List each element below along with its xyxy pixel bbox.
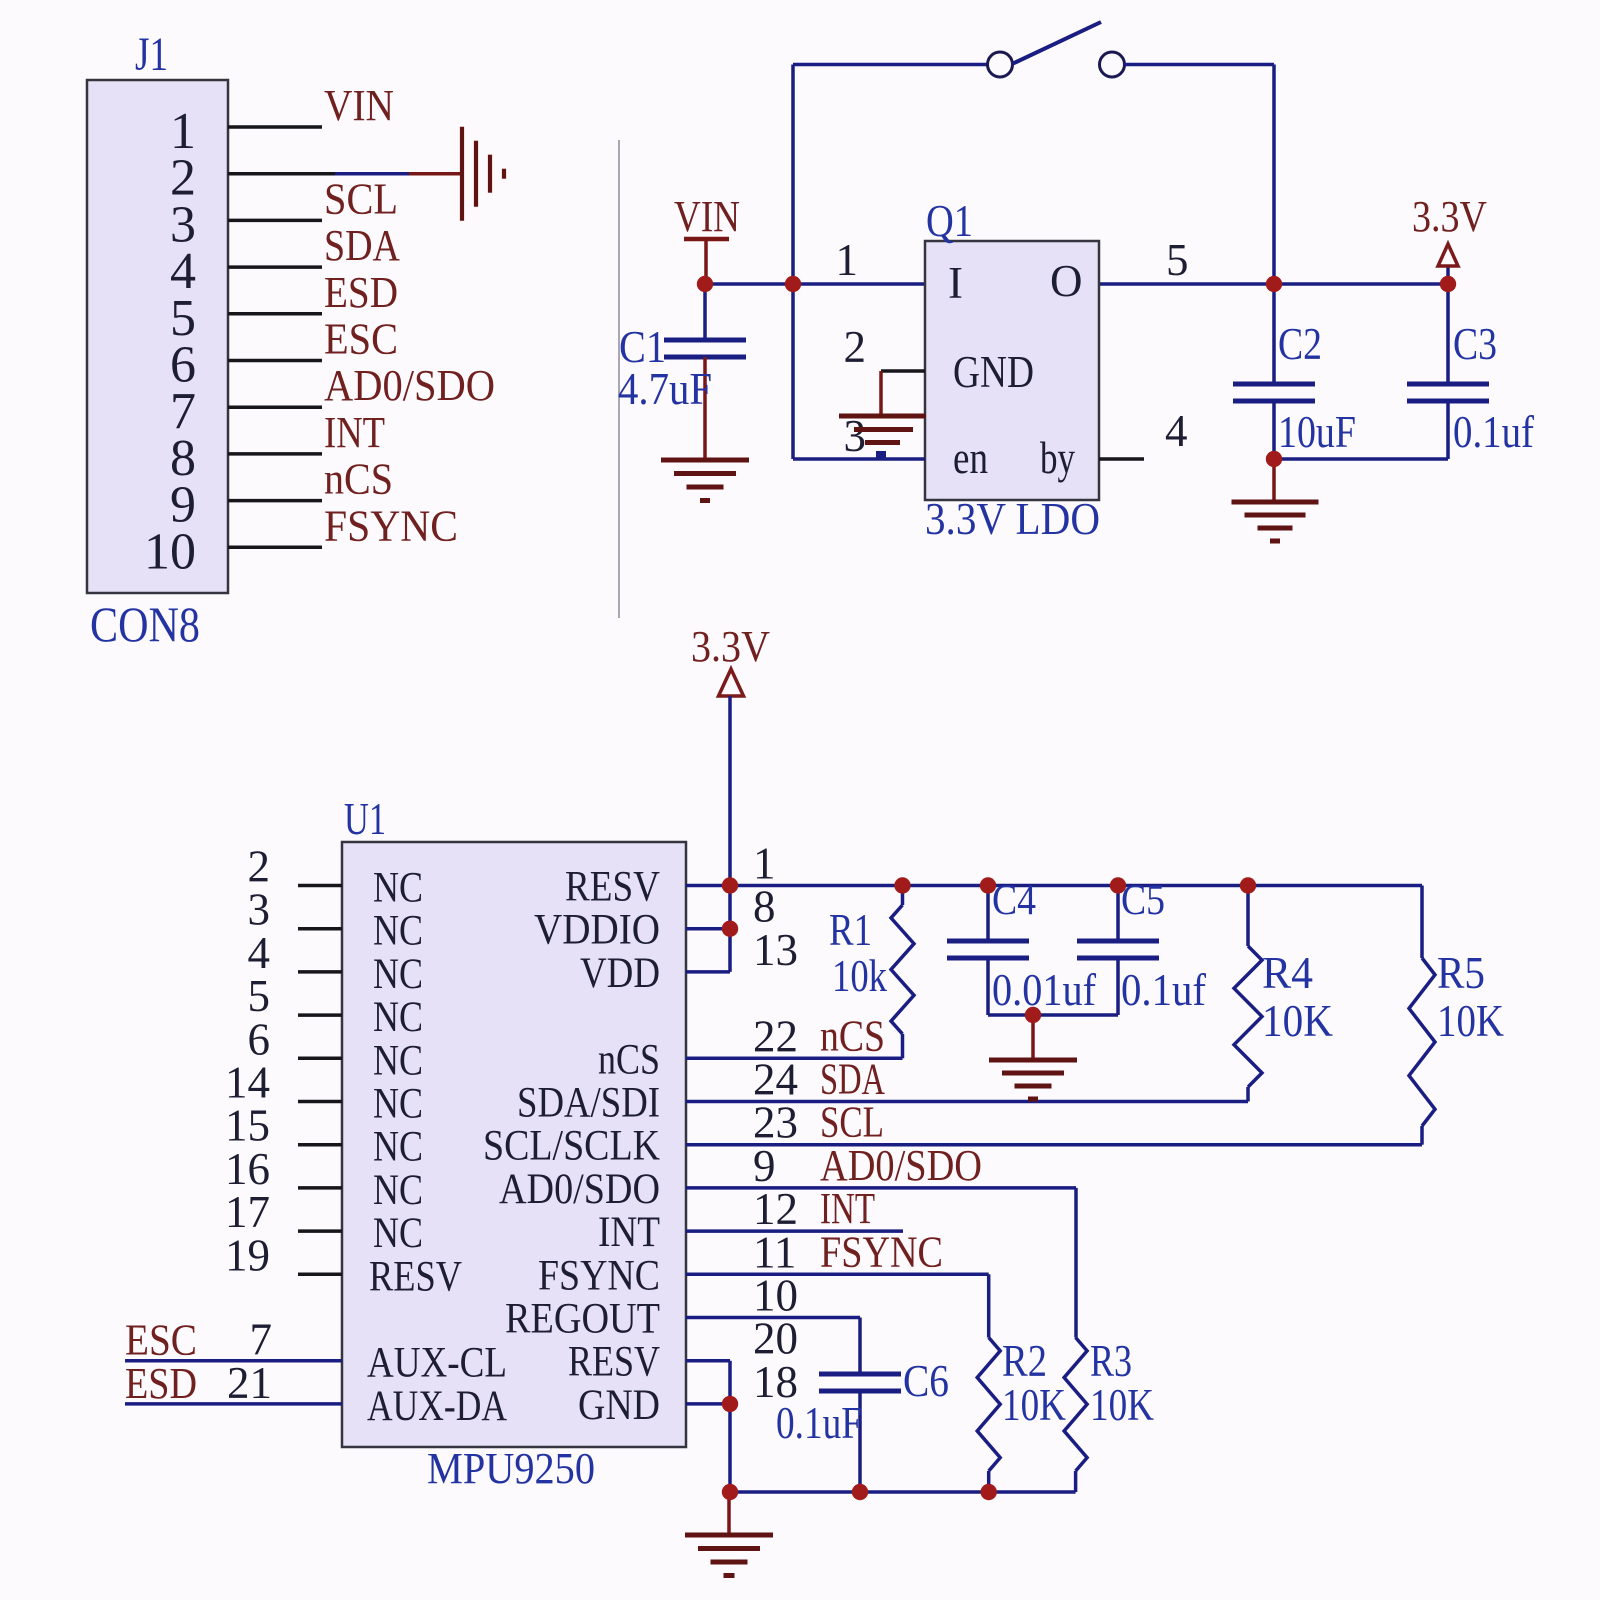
svg-text:AD0/SDO: AD0/SDO [820,1141,982,1190]
svg-text:RESV: RESV [369,1253,462,1300]
svg-text:3.3V LDO: 3.3V LDO [925,494,1100,544]
svg-text:R3: R3 [1090,1336,1132,1386]
svg-text:MPU9250: MPU9250 [427,1444,595,1493]
svg-text:FSYNC: FSYNC [538,1252,660,1299]
svg-text:ESC: ESC [324,315,398,364]
svg-text:13: 13 [753,925,798,975]
svg-text:0.1uf: 0.1uf [1453,407,1534,457]
svg-text:10k: 10k [832,951,887,1001]
svg-text:nCS: nCS [598,1036,660,1083]
svg-text:INT: INT [820,1184,875,1233]
svg-text:NC: NC [373,908,423,955]
svg-text:en: en [953,433,988,483]
svg-text:Q1: Q1 [926,196,973,246]
svg-text:R2: R2 [1002,1336,1047,1386]
svg-text:nCS: nCS [324,455,393,504]
svg-text:NC: NC [373,951,423,998]
svg-text:10uF: 10uF [1278,407,1356,457]
svg-text:GND: GND [578,1382,660,1429]
svg-text:nCS: nCS [820,1011,885,1060]
svg-text:VDDIO: VDDIO [534,907,660,954]
svg-text:RESV: RESV [568,1339,660,1386]
svg-text:C3: C3 [1453,319,1497,369]
svg-text:VIN: VIN [674,192,740,241]
svg-text:AUX-DA: AUX-DA [367,1383,507,1430]
svg-text:AD0/SDO: AD0/SDO [499,1166,660,1213]
svg-text:I: I [948,258,963,308]
svg-text:NC: NC [373,1081,423,1128]
svg-text:0.1uf: 0.1uf [1121,965,1206,1015]
svg-text:R4: R4 [1262,948,1313,998]
svg-text:3.3V: 3.3V [691,622,770,671]
svg-text:C6: C6 [903,1356,949,1406]
svg-text:VDD: VDD [580,950,660,997]
svg-text:U1: U1 [344,794,386,844]
svg-text:INT: INT [598,1209,660,1256]
svg-text:2: 2 [844,322,867,372]
svg-text:ESD: ESD [125,1359,197,1408]
svg-text:NC: NC [373,1167,423,1214]
svg-text:RESV: RESV [565,864,660,911]
svg-text:FSYNC: FSYNC [820,1227,943,1276]
svg-text:SCL: SCL [820,1098,884,1147]
svg-text:R5: R5 [1437,948,1485,998]
svg-text:REGOUT: REGOUT [505,1296,660,1343]
svg-text:by: by [1040,433,1075,483]
svg-text:ESD: ESD [324,268,398,317]
svg-text:GND: GND [953,347,1034,397]
svg-text:VIN: VIN [324,81,394,130]
svg-text:NC: NC [373,994,423,1041]
svg-text:NC: NC [373,1210,423,1257]
svg-text:J1: J1 [135,28,168,81]
svg-text:AUX-CL: AUX-CL [367,1340,507,1387]
svg-text:O: O [1050,256,1083,306]
svg-text:SDA: SDA [324,221,400,270]
svg-text:5: 5 [1166,235,1189,285]
svg-text:SDA/SDI: SDA/SDI [517,1080,660,1127]
svg-text:ESC: ESC [125,1316,197,1365]
svg-text:4: 4 [1165,406,1188,456]
svg-text:R1: R1 [829,905,872,955]
svg-text:10K: 10K [1090,1380,1154,1430]
svg-text:SCL: SCL [324,174,398,223]
svg-text:1: 1 [836,235,859,285]
svg-text:FSYNC: FSYNC [324,501,458,550]
svg-text:AD0/SDO: AD0/SDO [324,361,495,410]
svg-text:10K: 10K [1002,1380,1066,1430]
svg-text:NC: NC [373,1124,423,1171]
svg-text:INT: INT [324,408,385,457]
svg-text:4.7uF: 4.7uF [618,364,712,414]
svg-text:10K: 10K [1437,996,1504,1046]
svg-text:NC: NC [373,1037,423,1084]
svg-text:19: 19 [225,1230,270,1280]
svg-text:0.1uF: 0.1uF [776,1398,862,1448]
svg-text:NC: NC [373,865,423,912]
svg-text:SDA: SDA [820,1055,885,1104]
svg-text:3.3V: 3.3V [1412,192,1487,241]
svg-text:10: 10 [144,523,196,580]
svg-text:SCL/SCLK: SCL/SCLK [483,1123,660,1170]
svg-text:0.01uf: 0.01uf [992,965,1096,1015]
svg-text:C2: C2 [1278,319,1322,369]
svg-text:CON8: CON8 [90,596,200,652]
svg-text:C5: C5 [1121,877,1165,924]
svg-text:21: 21 [227,1358,272,1408]
svg-text:10K: 10K [1262,996,1333,1046]
svg-text:C4: C4 [992,877,1036,924]
